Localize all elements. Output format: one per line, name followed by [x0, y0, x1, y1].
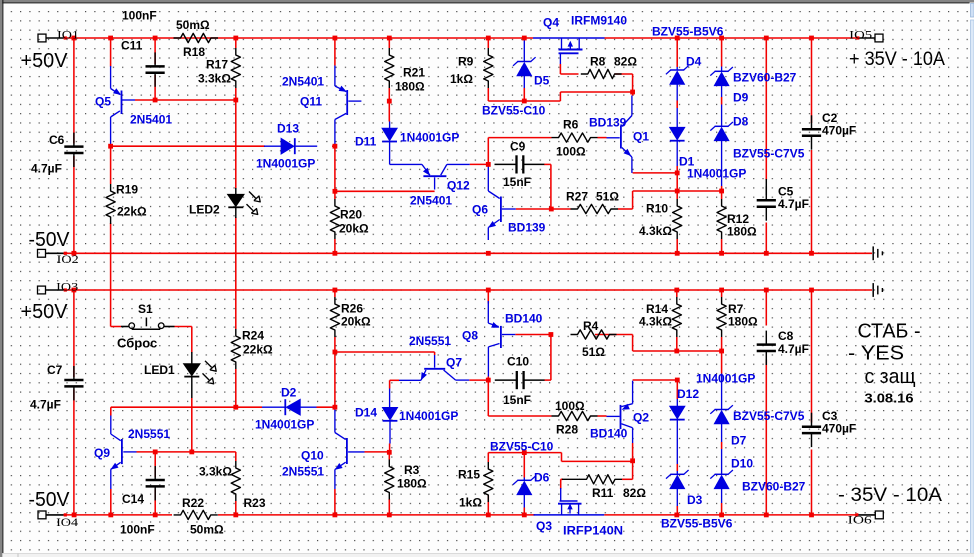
MOSFET Q3 IRFP140N: [534, 488, 605, 515]
svg-text:R20: R20: [340, 208, 362, 222]
label Q3 ref: [536, 519, 552, 533]
label Q3 model: [563, 524, 623, 538]
transistor Q1 BD139: [607, 92, 633, 173]
label C3 ref: [822, 409, 838, 423]
svg-text:4.7µF: 4.7µF: [778, 342, 809, 356]
wire C9 to R27 node: [544, 164, 551, 209]
label D8 model: [733, 147, 805, 161]
label R15 ref: [458, 468, 480, 482]
resistor R14 4.3k: [672, 297, 681, 337]
transistor Q12 2N5401: [422, 164, 470, 189]
wire D14 corner: [390, 380, 399, 388]
svg-text:15nF: 15nF: [503, 175, 531, 189]
wire R27 row: [516, 208, 633, 210]
wire D2 row: [111, 406, 335, 408]
label R21 value: [395, 80, 425, 94]
svg-text:D13: D13: [277, 122, 299, 136]
resistor R26 20k: [330, 297, 339, 337]
label R26 ref: [341, 302, 363, 316]
svg-text:Q9: Q9: [94, 446, 110, 460]
svg-text:D12: D12: [677, 387, 699, 401]
label C5 value: [778, 197, 809, 211]
label C14 ref: [122, 492, 144, 506]
resistor R12 180: [717, 199, 726, 239]
svg-text:+ 35V - 10A: + 35V - 10A: [849, 49, 945, 70]
wire R11 left to Q3 gate: [561, 479, 563, 489]
label Q12 model: [410, 194, 452, 208]
label R23 ref: [244, 496, 266, 510]
svg-text:IO6: IO6: [848, 513, 872, 527]
svg-text:4.3kΩ: 4.3kΩ: [639, 315, 672, 329]
wire S1 right to LED1: [175, 327, 192, 353]
label R4 ref: [583, 319, 599, 333]
label R11 value: [623, 486, 646, 500]
label R24 value: [243, 343, 273, 357]
svg-text:50mΩ: 50mΩ: [190, 523, 224, 537]
label Q7 ref: [446, 356, 462, 370]
node IO5 label: [849, 28, 872, 42]
wire +50V top rail: [64, 37, 859, 39]
svg-text:C14: C14: [122, 492, 144, 506]
zener D8 BZV55-C7V5: [710, 105, 733, 187]
svg-text:2N5401: 2N5401: [130, 113, 172, 127]
terminal IO5 +35V output: [858, 34, 883, 42]
resistor R4 51: [571, 330, 617, 339]
wire Q7 collector to C10 node: [469, 379, 490, 381]
node IO2 label: [57, 252, 79, 266]
svg-text:100Ω: 100Ω: [555, 399, 585, 413]
wire D11 column: [388, 101, 390, 121]
wire R12 column: [721, 191, 723, 253]
wire Q8 base to R4: [515, 334, 552, 336]
svg-text:Q5: Q5: [95, 95, 111, 109]
wire D5 anode lead: [523, 88, 525, 101]
svg-text:D14: D14: [355, 406, 377, 420]
wire Q9 emitter drop: [110, 489, 112, 515]
label D2 model: [255, 418, 314, 432]
wire Q8 collector drop: [487, 377, 489, 381]
svg-text:180Ω: 180Ω: [728, 315, 758, 329]
label R20 ref: [340, 208, 362, 222]
label title line3: [865, 366, 916, 388]
label R10 value: [639, 224, 672, 238]
svg-text:C9: C9: [510, 140, 526, 154]
svg-text:R23: R23: [244, 496, 266, 510]
wire C3 column: [811, 290, 813, 515]
label Q1 model: [589, 116, 627, 130]
wire C6 column: [73, 38, 75, 253]
svg-text:D11: D11: [355, 135, 377, 149]
label R23 value: [199, 465, 232, 479]
wire R6 left riser: [487, 138, 489, 165]
label C5 ref: [778, 185, 794, 199]
svg-text:R21: R21: [403, 66, 425, 80]
label title line2: [848, 342, 904, 364]
svg-text:D5: D5: [534, 74, 550, 88]
window border top: [0, 0, 974, 3]
node IO1 label: [57, 28, 79, 42]
svg-text:20kΩ: 20kΩ: [339, 222, 369, 236]
svg-text:+50V: +50V: [21, 301, 69, 323]
svg-text:BZV55-C10: BZV55-C10: [482, 104, 546, 118]
wire R9 column: [487, 38, 489, 101]
label D12 ref: [677, 387, 699, 401]
svg-text:R24: R24: [242, 329, 264, 343]
svg-text:51Ω: 51Ω: [582, 345, 605, 359]
wire lower ground rail: [64, 289, 873, 291]
resistor R3 180: [385, 460, 394, 500]
label C6 ref: [49, 133, 65, 147]
label D3 model: [661, 517, 733, 531]
transistor Q10 2N5551: [335, 407, 365, 489]
label D3 ref: [687, 493, 703, 507]
diode D11 1N4001GP: [382, 122, 422, 165]
svg-text:R27: R27: [566, 190, 588, 204]
svg-text:3.3kΩ: 3.3kΩ: [198, 72, 231, 86]
label D10 model: [742, 480, 806, 494]
capacitor C2 470uF: [802, 115, 821, 149]
label D1 ref: [679, 155, 695, 169]
capacitor C3 470uF: [802, 413, 821, 447]
svg-text:BZV55-B5V6: BZV55-B5V6: [661, 517, 733, 531]
wire R15 column: [487, 496, 489, 515]
svg-text:D6: D6: [534, 471, 550, 485]
scrollbar right: [970, 3, 974, 557]
label D7 ref: [731, 434, 747, 448]
label R10 ref: [646, 202, 668, 216]
terminal IO4 -50V input lower: [38, 511, 64, 519]
wire D6 jog to R11 row: [562, 453, 633, 462]
label C11 ref: [121, 39, 143, 53]
zener D7 BZV55-C7V5: [710, 374, 733, 443]
wire D12 D3 column: [676, 464, 678, 515]
svg-text:R19: R19: [116, 183, 138, 197]
label R28 value: [555, 399, 585, 413]
label Q1 ref: [633, 130, 649, 144]
svg-text:470µF: 470µF: [822, 422, 856, 436]
zener D6 BZV55-C10: [513, 476, 536, 508]
svg-text:- 35V - 10A: - 35V - 10A: [838, 485, 942, 506]
wire R26 column: [334, 290, 336, 352]
svg-text:D7: D7: [731, 434, 747, 448]
wire D14 to R3 node: [389, 444, 391, 453]
label R26 value: [341, 315, 371, 329]
label D13 ref: [277, 122, 299, 136]
svg-text:R22: R22: [182, 496, 204, 510]
status bar bottom: [2, 553, 974, 557]
svg-text:2N5401: 2N5401: [282, 75, 324, 89]
svg-text:R17: R17: [206, 58, 228, 72]
label S1 ref: [138, 302, 153, 316]
wire D6 anode lead: [523, 453, 525, 515]
svg-text:4.7µF: 4.7µF: [778, 197, 809, 211]
label Q6 ref: [472, 203, 488, 217]
svg-text:22kΩ: 22kΩ: [117, 205, 147, 219]
svg-text:-50V: -50V: [29, 229, 71, 251]
diode D1 1N4001GP: [670, 108, 685, 166]
label R19 value: [117, 205, 147, 219]
label C10 ref: [507, 355, 529, 369]
svg-text:2N5551: 2N5551: [282, 465, 324, 479]
wire R26 node to D2 node: [334, 352, 336, 407]
svg-text:D9: D9: [733, 91, 749, 105]
svg-text:R9: R9: [458, 55, 474, 69]
label R27 ref: [566, 190, 588, 204]
label R4 value: [582, 345, 605, 359]
svg-text:BZV55-C10: BZV55-C10: [490, 440, 554, 454]
resistor R18 50m ohm: [174, 33, 219, 42]
transistor Q6 BD139: [488, 164, 516, 240]
resistor R19 22k: [106, 184, 115, 224]
wire Q8 emitter feed: [487, 290, 489, 304]
svg-text:LED1: LED1: [144, 363, 175, 377]
resistor R10 4.3k: [673, 199, 682, 239]
svg-text:BZV55-C7V5: BZV55-C7V5: [733, 409, 805, 423]
wire Q9 collector riser: [110, 407, 112, 415]
label R12 ref: [727, 212, 749, 226]
ground lower: [873, 283, 882, 297]
label R19 ref: [116, 183, 138, 197]
node IO6 label: [848, 513, 872, 527]
svg-text:100nF: 100nF: [120, 523, 155, 537]
wire D6 row: [488, 452, 561, 454]
wire R17 column: [235, 38, 237, 100]
zener D3 BZV55-B5V6: [666, 470, 689, 506]
wire Q5 collector node to R19 and S1: [111, 146, 121, 326]
wire R4 jog to output row: [633, 335, 722, 352]
svg-text:180Ω: 180Ω: [727, 225, 757, 239]
capacitor C5 4.7uF: [757, 179, 776, 221]
label Q5 model: [130, 113, 172, 127]
label R8 ref: [590, 55, 606, 69]
svg-text:Q3: Q3: [536, 519, 552, 533]
label R7 ref: [728, 302, 744, 316]
svg-text:Сброс: Сброс: [117, 335, 157, 350]
wire zener D5 row: [488, 92, 632, 101]
wire D7 cathode lead: [721, 351, 723, 374]
label R14 ref: [646, 302, 668, 316]
svg-text:S1: S1: [138, 302, 153, 316]
svg-text:LED2: LED2: [189, 203, 220, 217]
label R22 value: [190, 523, 224, 537]
svg-text:+50V: +50V: [21, 50, 69, 72]
svg-text:Q4: Q4: [543, 16, 559, 30]
svg-text:с защ: с защ: [865, 366, 916, 388]
wire R8 output: [615, 74, 633, 92]
svg-text:C11: C11: [121, 39, 143, 53]
svg-text:4.3kΩ: 4.3kΩ: [639, 224, 672, 238]
svg-text:R3: R3: [404, 463, 420, 477]
resistor R21 180: [385, 48, 394, 88]
wire Q5 base node: [135, 99, 236, 101]
label D5 ref: [534, 74, 550, 88]
label R20 value: [339, 222, 369, 236]
wire C10 right riser: [545, 335, 551, 381]
transistor Q9 2N5551: [111, 416, 137, 490]
MOSFET Q4 IRFM9140: [533, 38, 605, 64]
svg-text:Q8: Q8: [462, 329, 478, 343]
svg-text:1kΩ: 1kΩ: [450, 72, 473, 86]
svg-text:C8: C8: [778, 329, 794, 343]
wire R3 column: [388, 452, 390, 515]
wire R6 row: [488, 137, 606, 139]
label C9 value: [503, 175, 531, 189]
wire LED2 to R24 column: [235, 100, 237, 407]
wire D13 cathode to node A: [332, 145, 335, 147]
svg-text:R8: R8: [590, 55, 606, 69]
window border left: [0, 0, 3, 557]
wire R21 column: [388, 38, 390, 101]
capacitor C9 15nF: [495, 155, 545, 173]
svg-text:2N5551: 2N5551: [128, 427, 170, 441]
wire Q5 emitter feed: [110, 38, 112, 67]
svg-text:1N4001GP: 1N4001GP: [399, 409, 458, 423]
svg-text:82Ω: 82Ω: [614, 55, 637, 69]
label Q11 model: [282, 75, 324, 89]
label D7 model: [733, 409, 805, 423]
diode D13 1N4001GP: [264, 138, 317, 154]
wire D12 top lead: [676, 380, 678, 399]
wire D13 anode row: [111, 145, 265, 147]
label C8 value: [778, 342, 809, 356]
label C3 value: [822, 422, 856, 436]
zener D4 BZV55-B5V6: [666, 66, 689, 101]
label C9 ref: [510, 140, 526, 154]
wire D1 to output row: [676, 173, 678, 191]
resistor R20 20k: [330, 199, 339, 239]
label Q8 model: [505, 312, 543, 326]
label C14 value: [120, 523, 155, 537]
wire Q7 base row: [335, 352, 435, 355]
svg-text:R18: R18: [183, 45, 205, 59]
svg-text:51Ω: 51Ω: [596, 190, 619, 204]
wire Q2 collector to R11 node: [622, 443, 633, 479]
svg-text:4.7µF: 4.7µF: [30, 398, 61, 412]
wire C5 column: [765, 38, 767, 253]
svg-text:IO1: IO1: [57, 28, 79, 42]
label S1 value Sbros: [117, 335, 157, 350]
label R9 ref: [458, 55, 474, 69]
wire Q11 emitter feed: [334, 38, 336, 66]
label D6 model: [490, 440, 554, 454]
label LED1: [144, 363, 175, 377]
wire C7 column: [73, 290, 75, 515]
svg-text:Q11: Q11: [300, 95, 322, 109]
label R18 ref: [183, 45, 205, 59]
svg-text:D4: D4: [686, 55, 702, 69]
svg-text:BD140: BD140: [590, 427, 628, 441]
svg-text:4.7µF: 4.7µF: [31, 162, 62, 176]
label +50V top: [21, 50, 69, 72]
svg-text:D2: D2: [281, 386, 297, 400]
resistor R7 180: [717, 297, 726, 337]
svg-text:180Ω: 180Ω: [397, 477, 427, 491]
svg-text:R6: R6: [563, 118, 579, 132]
wire C14 column: [154, 452, 156, 515]
svg-text:BD139: BD139: [508, 221, 546, 235]
label R18 value: [176, 18, 210, 32]
transistor Q7 2N5551: [399, 355, 469, 380]
label LED2: [189, 203, 220, 217]
switch S1 Sbros: [121, 318, 175, 330]
wire LED1 to Q9 base node: [191, 398, 193, 452]
transistor Q2 BD140: [607, 381, 633, 443]
label C8 ref: [778, 329, 794, 343]
label D4 ref: [686, 55, 702, 69]
wire -50V bottom rail: [64, 514, 857, 516]
label Q2 model: [590, 427, 628, 441]
svg-text:22kΩ: 22kΩ: [243, 343, 273, 357]
svg-text:R4: R4: [583, 319, 599, 333]
resistor R27 51: [571, 204, 619, 213]
label Q11 ref: [300, 95, 322, 109]
svg-text:Q7: Q7: [446, 356, 462, 370]
resistor R22 50m ohm: [174, 510, 218, 519]
svg-text:20kΩ: 20kΩ: [341, 315, 371, 329]
node IO4 label: [56, 515, 78, 529]
label D4 model: [652, 25, 724, 39]
terminal IO3 +50V input lower: [38, 286, 64, 294]
label Q9 model: [128, 427, 170, 441]
svg-text:BD139: BD139: [589, 116, 627, 130]
wire D9 D8 column: [721, 38, 723, 191]
label Q6 model: [508, 221, 546, 235]
terminal IO1 +50V input: [38, 34, 64, 42]
zener D9 BZV60-B27: [710, 67, 733, 98]
svg-text:470µF: 470µF: [822, 124, 856, 138]
svg-text:1N4001GP: 1N4001GP: [687, 167, 746, 181]
svg-text:Q1: Q1: [633, 130, 649, 144]
label Q8 ref: [462, 329, 478, 343]
resistor R9 1k: [484, 48, 493, 88]
svg-text:D10: D10: [731, 457, 753, 471]
capacitor C8 4.7uF: [757, 331, 776, 365]
label Q4 ref: [543, 16, 559, 30]
label C7 ref: [47, 363, 63, 377]
label D10 ref: [731, 457, 753, 471]
capacitor C6 4.7uF: [64, 133, 83, 167]
wire R14 column: [676, 290, 678, 351]
svg-text:D3: D3: [687, 493, 703, 507]
svg-text:Q12: Q12: [447, 179, 470, 193]
wire Q12 collector to C9 node: [470, 163, 490, 165]
label D6 ref: [534, 471, 550, 485]
label D11 model: [400, 131, 459, 145]
diode D14 1N4001GP: [382, 389, 397, 444]
svg-text:82Ω: 82Ω: [623, 486, 646, 500]
label Q5 ref: [95, 95, 111, 109]
wire C8 column: [765, 290, 767, 515]
wire R15 top corner: [487, 453, 489, 462]
svg-text:3.08.16: 3.08.16: [865, 390, 914, 405]
transistor Q8 BD140: [488, 301, 515, 377]
label D14 model: [399, 409, 458, 423]
wire R28 to Q2 base: [598, 415, 607, 417]
wire C10 node to R28 row: [488, 380, 551, 416]
wire Q10 base row: [365, 451, 390, 453]
svg-text:СТАБ -: СТАБ -: [858, 320, 921, 342]
label D14 ref: [355, 406, 377, 420]
label Q12 ref: [447, 179, 470, 193]
svg-text:Q2: Q2: [633, 411, 649, 425]
wire C2 column: [811, 38, 813, 253]
zener D10 BZV60-B27: [710, 449, 733, 503]
label D12 model: [696, 372, 755, 386]
label R6 value: [556, 145, 586, 159]
label D9 model: [733, 71, 797, 85]
label D8 ref: [733, 115, 749, 129]
zener D5 BZV55-C10: [513, 39, 536, 88]
